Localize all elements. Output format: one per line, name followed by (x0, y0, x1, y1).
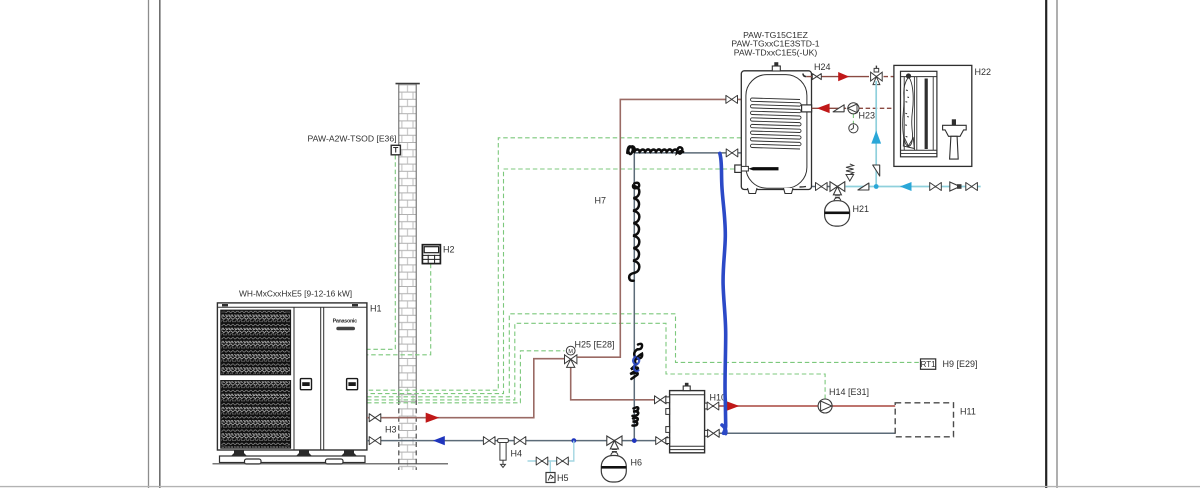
unit feet (231, 450, 247, 456)
ground line (213, 463, 449, 465)
clock symbol (849, 124, 858, 133)
blue marker blob end (722, 425, 726, 434)
valve drain 2 (557, 457, 569, 465)
svg-text:H21: H21 (853, 204, 870, 214)
pipe tank cold inlet stub (806, 186, 830, 188)
tank coil (752, 98, 801, 149)
svg-text:H23: H23 (859, 111, 876, 121)
grille upper (221, 310, 291, 375)
arrow DHW (838, 72, 849, 81)
svg-text:WH-MxCxxHxE5 [9-12-16 kW]: WH-MxCxxHxE5 [9-12-16 kW] (239, 289, 352, 299)
right ports (705, 403, 709, 409)
arrow heating flow (726, 401, 740, 411)
tank feet (748, 188, 758, 194)
valve cold 1 (930, 183, 942, 191)
grille corner screws (222, 311, 226, 313)
scribble mid loops B (630, 344, 642, 379)
wire tank sensor (367, 169, 734, 394)
valve H10 return (656, 437, 668, 445)
tank top vent (772, 66, 780, 71)
pipe DHW mixed dashed (884, 76, 894, 78)
pipe H25 down to buffer H10 (571, 365, 655, 400)
frame bottom line (0, 486, 1200, 488)
pipe drain (528, 441, 574, 461)
pipe HP return (367, 440, 670, 442)
pipe H5 stub (549, 461, 551, 473)
tank outlet elbow top right (803, 74, 806, 77)
svg-text:PAW-A2W-TSOD [E36]: PAW-A2W-TSOD [E36] (308, 134, 397, 144)
H6 vessel (601, 456, 626, 483)
valve after H4 (514, 437, 526, 445)
pipe cold main (846, 186, 981, 188)
scribble low marks C (633, 407, 639, 425)
valve H11 return at H10 (708, 429, 720, 437)
tank casing (741, 71, 811, 190)
svg-text:H11: H11 (960, 407, 976, 417)
arrow recirc (817, 104, 830, 114)
frame right inner line (1045, 0, 1047, 488)
unit top cap (217, 306, 367, 308)
arrow cold left (900, 182, 912, 191)
wire H25 / E28 (367, 351, 565, 403)
svg-text:H2: H2 (443, 245, 455, 255)
wire RT1 / H9 (367, 314, 921, 397)
svg-text:Panasonic: Panasonic (333, 318, 358, 324)
junction dot H7 return (632, 438, 637, 443)
pipe recirc dashed (859, 107, 894, 109)
valve drain 1 (536, 457, 548, 465)
H2 controller box (422, 245, 440, 264)
H11 dashed box (895, 403, 953, 437)
mixing valve H24 (871, 66, 883, 85)
wall brick column (399, 84, 416, 470)
arrow cold up (871, 131, 881, 144)
svg-text:H24: H24 (814, 62, 831, 72)
H22 box (894, 65, 972, 166)
pump H23 (848, 103, 859, 114)
svg-text:H6: H6 (631, 458, 643, 468)
handle right (347, 379, 358, 390)
pipe DHW out (807, 76, 870, 78)
RT1 box (921, 359, 936, 369)
pipe H25 to H7 riser top to tank coil in (578, 99, 742, 357)
check valve cold 2 (950, 182, 960, 191)
heater element (748, 167, 778, 170)
unit base skid (220, 456, 366, 463)
valve coil return (726, 149, 738, 157)
frame left outer line (148, 0, 150, 488)
wire H2 to unit (367, 264, 431, 355)
heater flange (735, 165, 742, 172)
valve cold 3 (966, 183, 978, 191)
3way valve tank cold (830, 182, 845, 202)
shower head (906, 73, 911, 78)
svg-text:H3: H3 (385, 425, 397, 435)
H25 motor 3-way valve (565, 346, 577, 367)
wire H23 clock (852, 114, 854, 124)
scribble vertical loops A (629, 183, 639, 281)
wall top cap (396, 83, 420, 85)
wire outer loop top (tank) (367, 138, 741, 390)
check valve recirc (833, 105, 844, 112)
arrow flow red (426, 413, 440, 423)
frame left inner line (159, 0, 161, 488)
shower hose doodle (903, 78, 914, 147)
pump H14 (818, 399, 832, 413)
tank right mid flange (802, 105, 812, 112)
pipe coil return vertical (634, 153, 741, 441)
pipe HP flow out (367, 359, 564, 418)
wire TSOD sensor to unit (367, 155, 395, 349)
handle left (300, 379, 311, 390)
pipe heating flow (708, 405, 895, 407)
basin (943, 125, 967, 136)
valve HP flow (369, 414, 381, 422)
frame right outer line (1056, 0, 1058, 488)
tank inner vessel (746, 75, 807, 189)
left ports (666, 397, 670, 403)
svg-text:H5: H5 (557, 473, 569, 483)
valve H10 in (655, 396, 667, 404)
cabin dark stripe (925, 79, 928, 150)
H5 flow switch box (546, 473, 555, 483)
arrow return blue (433, 436, 445, 445)
svg-text:H4: H4 (511, 449, 523, 459)
svg-text:H7: H7 (595, 196, 607, 206)
svg-text:H1: H1 (370, 304, 382, 314)
pipe H11 return (705, 432, 896, 434)
valve 3way H6 (607, 436, 622, 445)
unit body (217, 303, 367, 450)
tank bottom right elbow (800, 186, 807, 189)
svg-text:H25 [E28]: H25 [E28] (575, 340, 615, 350)
valve tank coil in (726, 95, 738, 103)
valve return mid (483, 437, 495, 445)
svg-text:H14 [E31]: H14 [E31] (829, 387, 869, 397)
junction dot cold (874, 184, 879, 189)
shower cabin frame (901, 71, 937, 157)
grille lower (221, 381, 291, 449)
svg-text:M: M (568, 349, 573, 355)
TSOD sensor box (391, 145, 400, 155)
valve HP return (369, 437, 381, 445)
svg-text:H22: H22 (975, 67, 992, 77)
wire H14 / E31 (367, 323, 825, 400)
tank recirc flange line (812, 107, 846, 109)
svg-text:PAW-TDxxC1E5(-UK): PAW-TDxxC1E5(-UK) (734, 47, 818, 57)
check flap cold (858, 183, 869, 190)
blue pen scribble (633, 357, 639, 372)
check flap riser (873, 165, 880, 176)
safety relief valve (846, 164, 854, 181)
top fitting (683, 386, 690, 391)
junction dot drain (571, 438, 576, 443)
valve DHW small (812, 74, 821, 80)
svg-text:RT1: RT1 (921, 360, 937, 369)
pipe cyan riser (875, 81, 877, 187)
svg-text:H9 [E29]: H9 [E29] (943, 359, 978, 369)
valve heating flow (707, 402, 719, 410)
scribble horizontal top (627, 146, 683, 154)
unit divider lines (293, 307, 295, 450)
valve tank cold (816, 183, 828, 191)
